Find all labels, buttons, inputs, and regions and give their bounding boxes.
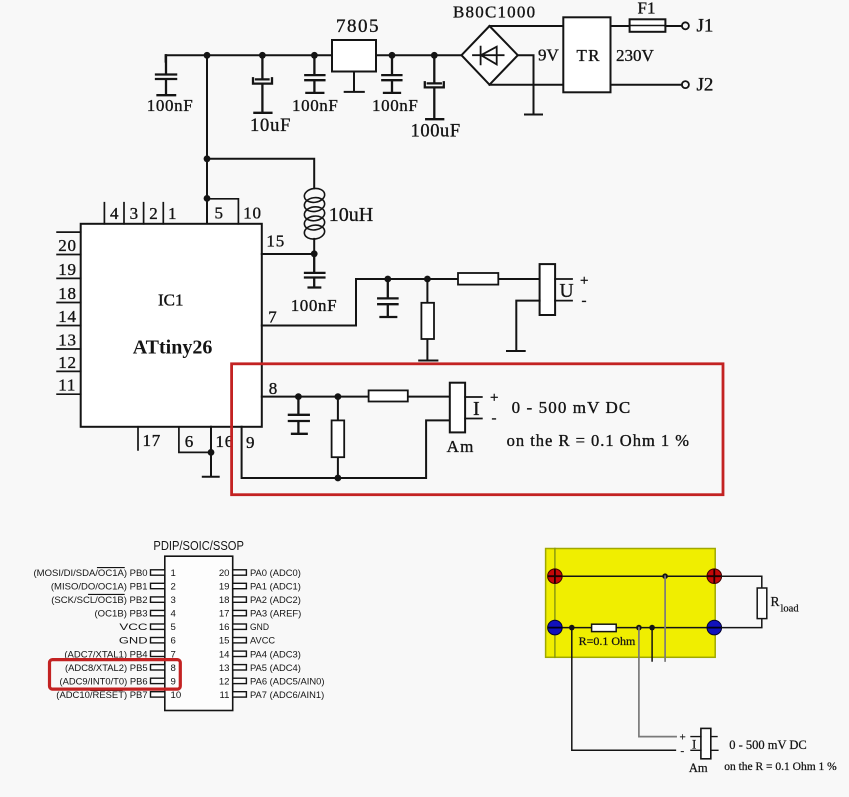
- label pin1 row MOSI PB0: [34, 568, 301, 579]
- svg-text:19: 19: [58, 260, 77, 279]
- svg-text:(SCK/SCL/OC1B) PB2: (SCK/SCL/OC1B) PB2: [51, 595, 147, 606]
- svg-text:3: 3: [171, 595, 176, 606]
- svg-text:14: 14: [219, 649, 230, 660]
- svg-text:PA5 (ADC4): PA5 (ADC4): [250, 663, 301, 674]
- svg-text:on the R = 0.1 Ohm 1 %: on the R = 0.1 Ohm 1 %: [724, 761, 837, 773]
- terminal plus right red circle: [707, 569, 722, 584]
- node junction dot pin8 cap: [295, 393, 302, 400]
- wire stub black below board: [651, 628, 653, 661]
- wire TR to fuse: [611, 25, 630, 27]
- svg-text:3: 3: [130, 204, 139, 223]
- svg-text:20: 20: [219, 568, 230, 579]
- fuse F1 body: [630, 19, 666, 32]
- pin tick bottom pin 17: [137, 427, 139, 450]
- overline OC1A pin1 label: [98, 567, 125, 569]
- pin ticks top pins 4 3 2 1: [104, 203, 163, 224]
- pin stubs left column: [151, 570, 165, 697]
- wire pin15 to LC node: [262, 253, 314, 255]
- ammeter I display box: [450, 383, 465, 433]
- wire to R load: [722, 576, 762, 627]
- svg-text:PA1 (ADC1): PA1 (ADC1): [250, 582, 301, 593]
- svg-text:10: 10: [243, 204, 262, 223]
- svg-text:16: 16: [219, 622, 230, 633]
- svg-text:9: 9: [246, 433, 255, 452]
- capacitor C7 filter upper chain: [378, 279, 397, 317]
- svg-text:(OC1B) PB3: (OC1B) PB3: [95, 609, 148, 620]
- node junction dot filter cap upper: [384, 276, 391, 283]
- wire bridge AC bottom to TR: [490, 84, 564, 86]
- wire inductor bottom to pin15 node: [313, 239, 315, 254]
- wire sense plus to ammeter gray: [639, 628, 676, 737]
- svg-text:17: 17: [143, 431, 162, 450]
- ammeter terminal stubs right: [465, 397, 482, 419]
- node junction dot bottom mid1: [636, 625, 642, 631]
- svg-text:9V: 9V: [538, 46, 560, 65]
- regulator U2 7805 box: [332, 40, 376, 72]
- svg-text:100nF: 100nF: [372, 96, 418, 115]
- resistor R load vertical: [757, 588, 767, 619]
- svg-text:5: 5: [215, 204, 224, 223]
- svg-text:0 - 500 mV DC: 0 - 500 mV DC: [512, 398, 632, 417]
- node junction dot pin15: [311, 250, 318, 257]
- IC package body outline pinout: [165, 556, 233, 710]
- svg-text:10: 10: [171, 690, 182, 701]
- svg-text:IC1: IC1: [158, 291, 184, 310]
- capacitor C6 100nF at pin15: [305, 254, 324, 288]
- svg-text:I: I: [473, 398, 480, 420]
- svg-text:-: -: [681, 745, 685, 757]
- svg-text:(ADC9/INT0/T0) PB6: (ADC9/INT0/T0) PB6: [60, 676, 148, 687]
- svg-text:+: +: [580, 273, 588, 289]
- svg-text:+: +: [680, 732, 686, 744]
- svg-text:(ADC8/XTAL2) PB5: (ADC8/XTAL2) PB5: [65, 663, 148, 674]
- svg-text:6: 6: [171, 636, 176, 647]
- svg-text:12: 12: [58, 353, 77, 372]
- svg-text:load: load: [781, 604, 800, 615]
- svg-text:7: 7: [268, 308, 277, 327]
- node junction dot rail to IC pin5: [204, 52, 211, 59]
- green meridian line left: [554, 549, 556, 658]
- label pin6 row GND: [119, 636, 275, 647]
- svg-text:(MISO/DO/OC1A) PB1: (MISO/DO/OC1A) PB1: [51, 582, 148, 593]
- svg-text:10uF: 10uF: [250, 116, 291, 136]
- transformer TR box: [563, 17, 610, 92]
- capacitor C2 10uF electrolytic: [253, 55, 272, 113]
- svg-text:F1: F1: [638, 0, 656, 18]
- svg-text:VCC: VCC: [119, 622, 147, 633]
- svg-text:PA0 (ADC0): PA0 (ADC0): [250, 568, 301, 579]
- terminal plus left red circle: [548, 569, 563, 584]
- shunt board yellow rectangle: [546, 549, 716, 658]
- svg-text:1: 1: [171, 568, 176, 579]
- svg-text:GND: GND: [250, 622, 269, 633]
- bridge rectifier B1 B80C1000 diamond: [462, 26, 518, 85]
- node junction dot pin6 box: [208, 449, 215, 456]
- IC1 ATtiny26 body box: [81, 224, 262, 427]
- node junction dot rail 10uF: [259, 52, 266, 59]
- svg-text:7805: 7805: [336, 16, 380, 37]
- svg-text:PDIP/SOIC/SSOP: PDIP/SOIC/SSOP: [153, 539, 244, 553]
- label pin2 row MISO PB1: [51, 582, 301, 593]
- overline OC1B pin3 label: [89, 593, 125, 595]
- voltmeter U display box: [540, 264, 556, 315]
- svg-text:11: 11: [58, 376, 76, 395]
- capacitor C5 100uF electrolytic: [425, 55, 444, 119]
- svg-text:-: -: [492, 411, 497, 427]
- node junction dot top row: [662, 573, 668, 579]
- wire vertical rail to pin5: [206, 55, 208, 224]
- node junction dot inductor branch: [204, 155, 211, 162]
- wire 7805 ground pin: [345, 72, 364, 92]
- svg-text:11: 11: [220, 690, 230, 701]
- node junction dot bottom left: [569, 625, 575, 631]
- wire sense minus to ammeter black: [572, 628, 676, 751]
- wire stub gray from top row: [664, 576, 666, 661]
- svg-text:100nF: 100nF: [291, 296, 337, 315]
- svg-text:Am: Am: [689, 761, 708, 775]
- resistor R2 divider lower leg vertical: [419, 279, 437, 361]
- label pin9 row ADC9 PB6: [60, 676, 325, 687]
- svg-text:2: 2: [171, 582, 176, 593]
- svg-text:19: 19: [219, 582, 230, 593]
- svg-text:+: +: [490, 390, 498, 406]
- resistor R4 divider lower chain vertical: [332, 397, 345, 478]
- svg-text:15: 15: [219, 636, 230, 647]
- wire pin7 to divider: [262, 279, 540, 326]
- svg-text:PA2 (ADC2): PA2 (ADC2): [250, 595, 301, 606]
- svg-text:20: 20: [58, 236, 77, 255]
- svg-text:17: 17: [219, 609, 230, 620]
- svg-text:B80C1000: B80C1000: [453, 3, 536, 22]
- capacitor C3 100nF: [305, 55, 324, 93]
- label pin10 row ADC10 PB7: [56, 690, 324, 701]
- label pin7 row ADC7 PB4: [64, 649, 300, 660]
- label pin3 row SCK PB2: [51, 595, 301, 606]
- svg-text:8: 8: [269, 379, 278, 398]
- svg-text:4: 4: [110, 204, 119, 223]
- svg-text:1: 1: [168, 204, 177, 223]
- wire bridge AC top to TR: [490, 25, 564, 27]
- terminal minus left blue circle: [548, 620, 563, 635]
- wire bottom row with shunt: [555, 627, 714, 629]
- inductor L1 10uH coil: [303, 187, 325, 240]
- ammeter2 terminal stubs: [691, 737, 718, 751]
- svg-text:100nF: 100nF: [147, 96, 193, 115]
- svg-text:5: 5: [171, 622, 176, 633]
- wire branch to inductor: [207, 159, 314, 189]
- svg-text:PA4 (ADC3): PA4 (ADC3): [250, 649, 301, 660]
- svg-text:18: 18: [219, 595, 230, 606]
- node junction dot rail 100uF: [431, 52, 438, 59]
- svg-text:9: 9: [171, 676, 176, 687]
- svg-text:100nF: 100nF: [292, 96, 338, 115]
- node junction dot rail 100nF: [311, 52, 318, 59]
- resistor R1 series upper chain horizontal: [458, 273, 498, 285]
- svg-text:0 - 500 mV DC: 0 - 500 mV DC: [729, 738, 807, 752]
- svg-text:Am: Am: [447, 437, 475, 456]
- svg-text:J2: J2: [697, 75, 714, 96]
- svg-text:R=0.1 Ohm: R=0.1 Ohm: [579, 634, 636, 648]
- svg-text:ATtiny26: ATtiny26: [133, 337, 213, 359]
- svg-text:(MOSI/DI/SDA/OC1A) PB0: (MOSI/DI/SDA/OC1A) PB0: [34, 568, 148, 579]
- diode inside bridge: [473, 47, 504, 65]
- svg-text:U: U: [560, 281, 574, 302]
- node junction dot pin8 resistor: [335, 393, 342, 400]
- node junction dot divider upper: [424, 276, 431, 283]
- svg-text:R: R: [771, 594, 780, 609]
- wire fuse to J1: [665, 25, 681, 27]
- label pin4 row OC1B PB3: [95, 609, 302, 620]
- svg-text:8: 8: [171, 663, 176, 674]
- svg-text:2: 2: [149, 204, 158, 223]
- wire pin6 GND to ground: [203, 427, 219, 477]
- svg-text:10uH: 10uH: [329, 204, 373, 226]
- terminal minus right blue circle: [707, 620, 722, 635]
- red highlight rectangle around current measurement: [232, 364, 723, 495]
- connector J2 terminal circle: [682, 81, 689, 88]
- svg-text:14: 14: [58, 307, 77, 326]
- wire voltmeter minus to ground: [507, 301, 540, 351]
- wire pin8 to ammeter: [262, 396, 450, 398]
- svg-text:13: 13: [58, 331, 77, 350]
- node junction dot bottom mid2: [649, 625, 655, 631]
- pin 6 box outline: [179, 427, 211, 453]
- svg-text:GND: GND: [119, 636, 148, 647]
- svg-text:PA3 (AREF): PA3 (AREF): [250, 609, 301, 620]
- svg-text:PA7 (ADC6/AIN1): PA7 (ADC6/AIN1): [250, 690, 324, 701]
- svg-text:13: 13: [219, 663, 230, 674]
- svg-text:15: 15: [266, 232, 285, 251]
- ammeter2 I display box: [701, 728, 711, 758]
- svg-text:100uF: 100uF: [411, 122, 461, 142]
- node junction dot bottom wire: [335, 475, 342, 482]
- svg-text:TR: TR: [577, 46, 601, 65]
- wire top row between plus terminals: [555, 575, 714, 577]
- pin 5 box outline: [207, 199, 238, 224]
- wire pin9 down and along bottom: [242, 420, 450, 478]
- pin stubs right column: [233, 570, 247, 697]
- node junction dot pin5 box corner: [204, 195, 211, 202]
- resistor shunt R 0.1 Ohm box: [592, 624, 617, 631]
- connector J1 terminal circle: [682, 22, 689, 29]
- resistor R3 series lower chain horizontal: [369, 390, 408, 401]
- svg-text:18: 18: [58, 284, 77, 303]
- capacitor C8 filter lower chain: [289, 397, 309, 434]
- svg-text:(ADC10/RESET) PB7: (ADC10/RESET) PB7: [56, 690, 147, 701]
- svg-text:-: -: [582, 293, 587, 309]
- voltmeter terminal stubs right: [555, 279, 572, 301]
- pin ticks left pins ladder: [57, 232, 81, 394]
- capacitor C4 100nF: [382, 55, 401, 93]
- label pin8 row ADC8 PB5: [65, 663, 301, 674]
- svg-text:J1: J1: [697, 16, 714, 37]
- overline RESET pin10 label: [91, 690, 122, 692]
- svg-text:I: I: [692, 737, 696, 752]
- red highlight box pins 8 and 9: [50, 660, 181, 690]
- node junction dot rail 100nF right: [389, 52, 396, 59]
- svg-text:AVCC: AVCC: [250, 636, 275, 647]
- wire bridge minus to ground: [518, 55, 542, 114]
- svg-text:6: 6: [185, 432, 194, 451]
- svg-text:PA6 (ADC5/AIN0): PA6 (ADC5/AIN0): [250, 676, 325, 687]
- svg-text:230V: 230V: [616, 46, 655, 65]
- capacitor C1 100nF leftmost: [156, 55, 176, 95]
- svg-text:4: 4: [171, 609, 177, 620]
- label pin5 row VCC: [119, 622, 269, 633]
- wire main +9V rail: [166, 55, 462, 61]
- svg-text:on the R = 0.1 Ohm 1 %: on the R = 0.1 Ohm 1 %: [507, 431, 690, 450]
- wire TR to J2: [611, 84, 682, 86]
- svg-text:12: 12: [219, 676, 230, 687]
